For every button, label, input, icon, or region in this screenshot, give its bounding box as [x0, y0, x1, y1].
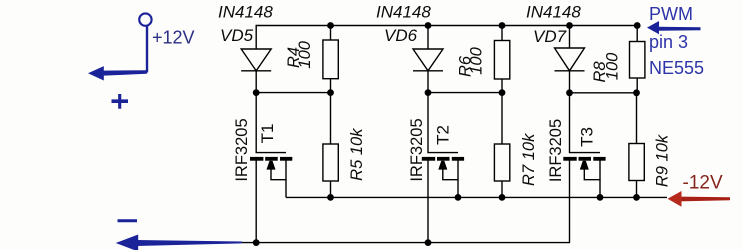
svg-text:IRF3205: IRF3205: [233, 118, 251, 181]
svg-text:100: 100: [603, 52, 621, 80]
wire gate node to R9: [636, 93, 638, 144]
plus sign: [112, 94, 129, 109]
svg-text:VD7: VD7: [533, 27, 567, 46]
resistor R5: [323, 144, 338, 181]
wire R4 to gate node: [330, 79, 332, 93]
node gate2 (diode side): [425, 89, 432, 96]
node source T2: [455, 194, 462, 201]
resistor R6: [494, 41, 509, 80]
node source R5: [327, 194, 334, 201]
node rail R8: [634, 22, 641, 29]
svg-text:T3: T3: [578, 127, 597, 147]
wire T3 drain down: [569, 160, 571, 242]
wire PWM top rail: [256, 25, 638, 27]
wire gate lead T2: [428, 93, 458, 153]
node gate1 (resistor side): [327, 89, 334, 96]
drain bottom rail: [242, 242, 570, 244]
svg-text:IN4148: IN4148: [218, 3, 273, 22]
wire rail to VD6: [427, 26, 429, 50]
wire T1 source down: [285, 180, 287, 198]
arrow minus output: [116, 235, 242, 250]
wire gate lead T3: [570, 93, 601, 153]
source rail to -12V: [286, 196, 667, 198]
wire gate node horizontal: [570, 92, 637, 94]
wire VD5 to gate node: [255, 71, 257, 93]
wire T2 drain down: [427, 160, 429, 242]
wire R5 to source rail: [330, 181, 332, 197]
wire T1 drain down: [255, 160, 257, 242]
wire +12V vertical: [146, 26, 148, 73]
diode VD6: [413, 49, 443, 71]
svg-text:IRF3205: IRF3205: [408, 118, 426, 181]
svg-text:-12V: -12V: [683, 173, 723, 194]
svg-text:+12V: +12V: [152, 28, 195, 48]
transistor T3 body arrow: [580, 161, 589, 170]
svg-text:R9 10k: R9 10k: [654, 134, 672, 187]
transistor T1 channel bars: [250, 157, 292, 161]
resistor R9: [629, 144, 644, 181]
node gate2 (resistor side): [499, 89, 506, 96]
node gate3 (resistor side): [633, 89, 640, 96]
diode VD7: [555, 48, 585, 71]
node source R7: [499, 194, 506, 201]
svg-text:IN4148: IN4148: [526, 3, 581, 22]
label R8 100: [591, 52, 622, 83]
wire rail to VD7: [569, 26, 571, 49]
svg-text:T1: T1: [258, 124, 277, 144]
wire gate node to R5: [330, 93, 332, 144]
svg-text:R5 10k: R5 10k: [348, 128, 366, 181]
node source R9: [633, 194, 640, 201]
wire R7 to source rail: [501, 181, 503, 197]
resistor R7: [494, 144, 509, 181]
node rail VD6: [425, 22, 432, 29]
svg-text:NE555: NE555: [649, 58, 704, 78]
wire R8 to gate node: [636, 78, 638, 93]
node gate1 (diode side): [253, 89, 260, 96]
svg-text:VD5: VD5: [220, 26, 254, 45]
svg-text:100: 100: [468, 46, 486, 74]
node gate3 (diode side): [566, 89, 573, 96]
wire T3 source down: [599, 180, 601, 198]
svg-text:IRF3205: IRF3205: [547, 119, 565, 182]
terminal +12V: [139, 13, 151, 25]
wire gate node horizontal: [428, 92, 502, 94]
wire gate node to R7: [501, 93, 503, 144]
svg-text:R7 10k: R7 10k: [520, 133, 538, 186]
wire R9 to source rail: [636, 181, 638, 198]
arrow -12V: [668, 191, 730, 207]
diode VD5: [241, 49, 271, 71]
minus sign: [118, 219, 138, 222]
wire T1 body-source link: [271, 158, 286, 180]
transistor T3 channel bars: [563, 157, 605, 161]
resistor R4: [323, 40, 338, 79]
node rail VD7: [566, 22, 573, 29]
wire rail to VD5: [255, 25, 257, 49]
wire gate node horizontal: [256, 92, 330, 94]
arrow PWM input: [647, 21, 701, 34]
resistor R8: [630, 42, 645, 79]
wire rail to R6: [501, 26, 503, 41]
svg-text:pin 3: pin 3: [649, 32, 688, 52]
label R4 100: [285, 40, 314, 68]
node drain rail T2: [425, 239, 432, 246]
svg-text:PWM: PWM: [649, 4, 693, 24]
wire rail to R8: [636, 26, 638, 42]
wire T2 body-source link: [443, 158, 458, 180]
wire R6 to gate node: [501, 79, 503, 93]
node rail R4: [327, 22, 334, 29]
wire VD6 to gate node: [427, 71, 429, 93]
svg-text:T2: T2: [434, 125, 453, 145]
node drain rail T1: [253, 239, 260, 246]
wire gate lead T1: [256, 93, 286, 153]
wire T2 source down: [457, 180, 459, 198]
wire rail to R4: [330, 26, 332, 41]
svg-text:IN4148: IN4148: [376, 3, 431, 22]
label R6 100: [456, 46, 485, 77]
node rail R6: [499, 22, 506, 29]
arrow +12V output: [88, 66, 147, 80]
wire T3 body-source link: [584, 158, 600, 180]
transistor T2 body arrow: [438, 161, 447, 170]
transistor T2 channel bars: [422, 157, 464, 161]
transistor T1 body arrow: [267, 161, 276, 170]
wire VD7 to gate node: [569, 71, 571, 93]
svg-text:VD6: VD6: [384, 26, 418, 45]
svg-text:100: 100: [296, 40, 314, 68]
node source T3: [597, 194, 604, 201]
